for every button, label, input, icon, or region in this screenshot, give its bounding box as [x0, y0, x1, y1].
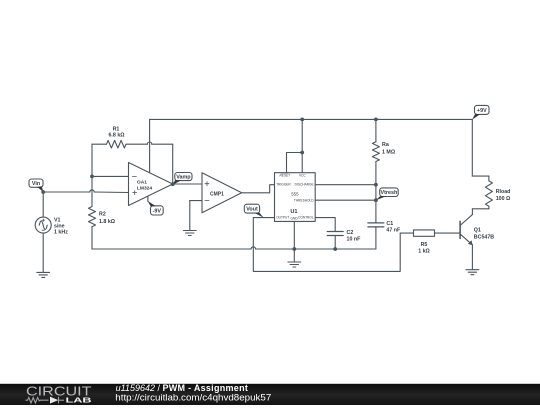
svg-text:RESET: RESET [279, 174, 291, 178]
wire Vamp to comparator [173, 183, 202, 185]
resistor Ra [372, 119, 379, 184]
wire feedback to output (hops over op-amp V+ pin) [126, 142, 173, 184]
svg-text:1 MΩ: 1 MΩ [382, 150, 396, 156]
svg-text:LM324: LM324 [137, 185, 153, 191]
node discharge junction [374, 183, 378, 187]
svg-text:-9V: -9V [153, 208, 162, 214]
wire ground net horizontal (hops over Vout vertical) [92, 247, 376, 249]
node Vin junction [41, 190, 45, 194]
resistor R2 [89, 207, 96, 227]
wire CMP1 output to 555 trigger [242, 185, 275, 193]
wire discharge node to threshold node [375, 185, 377, 201]
label R1 6.8 kOhm [108, 127, 125, 139]
svg-text:Q1: Q1 [474, 228, 481, 234]
wire DISCHARGE to Ra bottom [315, 184, 376, 186]
node junction rail/Ra [374, 118, 378, 122]
wire rail right end down to Rload [471, 119, 473, 176]
node RESET/VCC junction [300, 151, 304, 155]
wire to op-amp - input [92, 175, 129, 177]
resistor R5 (box style) [414, 230, 460, 236]
svg-text:OA1: OA1 [137, 179, 147, 185]
svg-text:CMP1: CMP1 [210, 191, 224, 197]
svg-text:100 Ω: 100 Ω [496, 196, 511, 202]
resistor Rload [472, 176, 492, 209]
svg-text:1.8 kΩ: 1.8 kΩ [99, 219, 116, 225]
svg-text:R5: R5 [421, 242, 428, 248]
label Vin [29, 179, 43, 192]
label Vout [244, 204, 263, 218]
svg-text:THRESHOLD: THRESHOLD [294, 198, 314, 202]
capacitor C1 47nF [368, 200, 384, 249]
node junction rail/VCC [300, 118, 304, 122]
svg-text:TRIGGER: TRIGGER [276, 183, 291, 187]
capacitor C2 10nF [327, 232, 343, 250]
op-amp OA1 LM324 [129, 119, 173, 205]
label Vtresh [376, 188, 398, 200]
voltage source V1 sine 1 kHz [35, 192, 51, 272]
wire CMP1 - input to ground [190, 201, 202, 231]
label V1 sine 1kHz [54, 217, 68, 235]
wire THRESHOLD to Vthresh node [315, 199, 376, 201]
svg-text:U1: U1 [290, 209, 297, 215]
svg-text:555: 555 [291, 191, 299, 196]
svg-text:LAB: LAB [66, 396, 93, 405]
node C2/ground-net junction [333, 247, 337, 251]
svg-text:6.8 kΩ: 6.8 kΩ [108, 133, 125, 139]
svg-text:BC547B: BC547B [474, 235, 494, 241]
svg-text:C1: C1 [386, 221, 393, 227]
node threshold junction [374, 198, 378, 202]
svg-text:OUTPUT: OUTPUT [276, 216, 289, 220]
svg-text:Vtresh: Vtresh [381, 190, 398, 196]
wire +9V top rail [150, 118, 473, 120]
svg-text:10 nF: 10 nF [347, 237, 362, 243]
label Ra 1 MOhm [382, 142, 396, 156]
label -9V supply [148, 201, 164, 215]
svg-text:1 kΩ: 1 kΩ [418, 249, 430, 255]
svg-text:1 kHz: 1 kHz [54, 230, 68, 236]
svg-text:Vamp: Vamp [176, 175, 191, 181]
svg-text:C2: C2 [347, 230, 354, 236]
svg-text:Vout: Vout [246, 207, 258, 213]
resistor R1 [92, 140, 126, 148]
wire CONTROL to C2 [315, 218, 335, 232]
IC U1 555 timer [275, 173, 316, 222]
wire OUTPUT net to R5 [253, 218, 413, 272]
svg-text:VCC: VCC [299, 174, 306, 178]
ground under V1 [37, 272, 50, 277]
svg-text:Vin: Vin [32, 181, 40, 187]
wire 555 RESET tied to VCC [287, 153, 303, 173]
ground at CMP1 - input [183, 231, 196, 236]
svg-text:GND: GND [291, 217, 299, 221]
svg-text:+9V: +9V [477, 108, 487, 114]
comparator CMP1 [202, 173, 242, 213]
ground at Q1 emitter [466, 270, 479, 275]
label Rload 100 Ohm [496, 189, 511, 202]
svg-text:DISCHARGE: DISCHARGE [295, 183, 314, 187]
footer title text [115, 383, 271, 402]
svg-text:http://circuitlab.com/c4qhvd8e: http://circuitlab.com/c4qhvd8epuk57 [115, 392, 271, 402]
svg-text:Rload: Rload [496, 189, 511, 195]
wire from rail down to 555 VCC [301, 119, 303, 172]
label Vamp [173, 173, 192, 185]
label R5 1 kOhm [418, 242, 430, 255]
label C2 10 nF [347, 230, 362, 243]
svg-text:47 nF: 47 nF [386, 228, 401, 234]
svg-text:V1: V1 [54, 217, 61, 223]
label Q1 BC547B [474, 228, 494, 241]
wire R2 bottom to ground net [91, 227, 93, 249]
label R2 1.8 kOhm [99, 212, 116, 225]
svg-text:R2: R2 [99, 212, 106, 218]
node op-amp inverting input junction [90, 175, 94, 179]
ground under 555 [288, 262, 301, 267]
svg-text:CONTROL: CONTROL [298, 216, 314, 220]
node op-amp output junction [171, 182, 175, 186]
svg-text:Ra: Ra [382, 142, 389, 148]
label +9V supply [472, 105, 489, 119]
wire 555 GND pin down [293, 221, 295, 262]
logo CIRCUIT LAB [26, 384, 93, 405]
transistor Q1 BC547B [460, 209, 473, 270]
wire Vin to op-amp + input (hops over R1/R2 vertical) [43, 190, 128, 193]
wire R1/R2 vertical (feedback node) [91, 144, 93, 206]
label C1 47 nF [386, 221, 401, 234]
node GND/ground-net junction [292, 247, 296, 251]
